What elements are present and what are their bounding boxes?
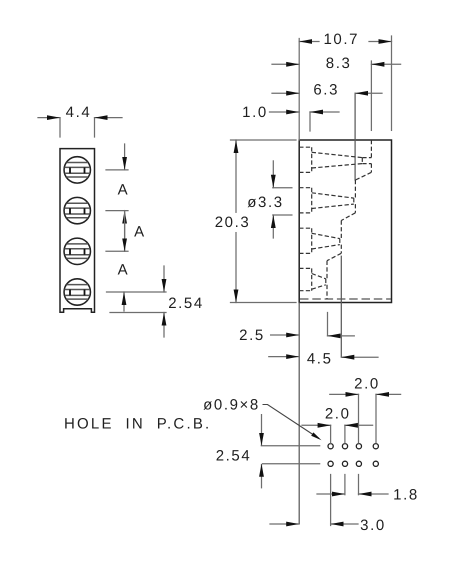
- svg-text:A: A: [118, 181, 130, 198]
- dim 4.4 right arrow: [95, 117, 123, 119]
- svg-text:4.5: 4.5: [307, 351, 333, 368]
- dim 1.0 left arrow: [270, 111, 300, 113]
- pole 1 hidden funnel: [299, 140, 371, 180]
- body outline (side view): [299, 140, 391, 303]
- ext line hole bottom: [273, 214, 292, 216]
- dim 1.0 ext line: [309, 112, 311, 131]
- dim 8.3 left arrow: [272, 63, 299, 65]
- up arrow: [272, 215, 274, 238]
- dim 2.0 upper (col3-col4): [330, 393, 401, 395]
- svg-text:3.0: 3.0: [360, 517, 386, 534]
- dim 6.3 left arrow: [272, 92, 299, 94]
- screw terminal 3: [64, 238, 90, 264]
- screw terminal circles: [64, 157, 90, 305]
- dim 1.8: [317, 493, 388, 495]
- svg-text:1.0: 1.0: [242, 104, 268, 121]
- svg-text:A: A: [118, 261, 130, 278]
- dim 8.3 ext line: [370, 61, 372, 130]
- ext line circle1 center: [106, 169, 128, 171]
- right side A dims: [106, 144, 166, 337]
- leader ø0.9×8: [263, 405, 320, 439]
- svg-text:2.54: 2.54: [216, 448, 252, 465]
- svg-text:8.3: 8.3: [326, 55, 352, 72]
- screw terminal 2: [64, 197, 90, 223]
- svg-text:4.4: 4.4: [66, 104, 92, 121]
- dashed line above body bottom: [300, 298, 391, 300]
- dim 8.3 right arrow: [371, 63, 400, 65]
- pole 3 hidden funnel: [299, 221, 341, 261]
- svg-text:2.0: 2.0: [325, 405, 351, 422]
- dim 4.4 extension line right: [94, 118, 96, 137]
- ext line block bottom (2.54): [110, 312, 166, 314]
- svg-text:A: A: [134, 223, 146, 240]
- arrow down to circle1 line: [124, 144, 126, 170]
- svg-text:ø3.3: ø3.3: [247, 194, 283, 211]
- long extension line pin row (4.5): [340, 256, 342, 358]
- svg-text:HOLE IN P.C.B.: HOLE IN P.C.B.: [64, 415, 211, 432]
- svg-text:1.8: 1.8: [393, 486, 419, 503]
- dim ø3.3: [273, 161, 292, 238]
- svg-text:2.5: 2.5: [239, 327, 265, 344]
- ext line body left (10.7): [298, 39, 300, 141]
- svg-text:20.3: 20.3: [215, 214, 251, 231]
- long extension into lower area: body left edge extended: [298, 303, 300, 525]
- dim 1.0 right arrow: [310, 111, 339, 113]
- ext line circle3 center: [106, 250, 128, 252]
- pole 2 hidden funnel: [299, 180, 355, 221]
- dim 10.7 right arrow: [369, 41, 392, 43]
- svg-text:ø0.9×8: ø0.9×8: [203, 397, 260, 414]
- ext line hole top: [273, 187, 292, 189]
- dim 4.4 extension line left: [59, 118, 61, 137]
- dim 20.3 line upper w/ up arrow: [235, 140, 237, 212]
- hole col extension lines above: [331, 394, 376, 525]
- svg-text:6.3: 6.3: [313, 82, 339, 99]
- ext corner: [327, 313, 329, 336]
- dim 2.0 lower (col1-col2): [302, 424, 373, 426]
- below holes: [330, 475, 332, 526]
- A dim double arrow circle2-circle3: [124, 211, 126, 252]
- arrow up to circle4 line: [123, 292, 125, 311]
- hidden internals (4 poles): [299, 140, 371, 299]
- down arrow: [272, 161, 274, 188]
- pole 4 hidden funnel: [299, 261, 327, 299]
- svg-text:2.54: 2.54: [168, 295, 204, 312]
- hole row extension lines left: [261, 445, 321, 447]
- dim 2.5: [271, 313, 355, 336]
- ext line body top left: [231, 139, 297, 141]
- dim 20.3 line lower w/ down arrow: [235, 233, 237, 303]
- svg-text:10.7: 10.7: [323, 31, 359, 48]
- dim 4.5: [269, 356, 378, 359]
- dim 10.7 left arrow: [299, 41, 319, 43]
- top dims: [270, 36, 401, 180]
- dim 2.54 down arrow: [163, 266, 165, 292]
- P.C.B. holes 8x: [328, 444, 333, 449]
- dim 3.0: [270, 523, 358, 525]
- dim 4.4 left arrow: [38, 117, 60, 119]
- ext line circle4 center (long, shared with 2.54): [107, 291, 167, 293]
- ext line body bottom left: [231, 302, 297, 304]
- ext line circle2 center: [106, 210, 128, 212]
- screw terminal 1: [64, 157, 90, 183]
- dim 20.3: [231, 140, 297, 303]
- screw terminal 4: [64, 279, 90, 305]
- dim 2.54 up arrow: [163, 313, 165, 338]
- terminal block body outline (top view): [60, 149, 95, 313]
- dim 6.3 ext line (into body): [354, 93, 356, 180]
- dim 2.54 arrows: [261, 414, 263, 446]
- ext line body right (10.7): [391, 36, 393, 130]
- svg-text:2.0: 2.0: [354, 375, 380, 392]
- dim 6.3 right arrow: [355, 92, 382, 94]
